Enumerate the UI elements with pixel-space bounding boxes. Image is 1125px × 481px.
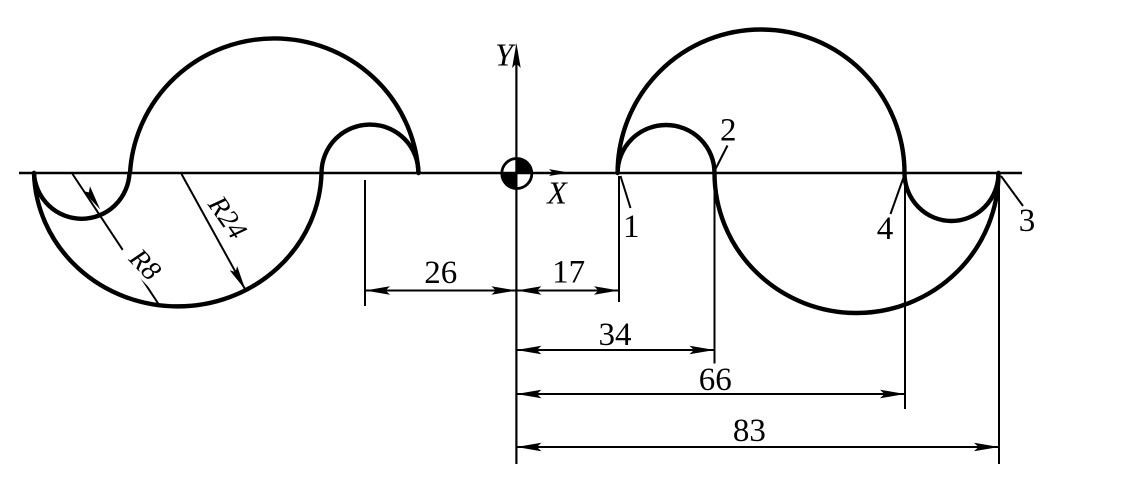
R8 label (115, 235, 173, 294)
right profile: R8 arc bowl below axis (point 4 to 3) (905, 173, 999, 221)
origin marker quadrant upper-right (517, 159, 532, 174)
right profile: R24 arc dome above axis (point 1 to 4) (618, 29, 905, 173)
svg-text:83: 83 (733, 413, 766, 449)
Y axis (515, 58, 517, 464)
leader for point 4 (891, 178, 904, 215)
svg-text:17: 17 (552, 255, 585, 291)
dimension 66 line (516, 393, 905, 395)
svg-text:26: 26 (424, 255, 457, 291)
right profile: R24 arc bowl below axis (point 2 to 3) (715, 173, 999, 313)
leader for point 2 (716, 146, 728, 170)
left profile: R24 arc dome above axis (130, 38, 419, 173)
dimension 83 line (516, 446, 999, 448)
leader for point 3 (1001, 176, 1023, 206)
extension line at point 2 (714, 176, 716, 364)
svg-text:3: 3 (1019, 203, 1036, 239)
svg-text:4: 4 (877, 211, 894, 247)
extension line at point 4 (904, 176, 906, 409)
extension line at point 1 (618, 176, 620, 302)
X axis arrow (549, 169, 569, 176)
leader for point 1 (621, 176, 631, 208)
svg-text:2: 2 (720, 113, 737, 149)
origin marker circle (502, 159, 532, 189)
R8 leader arrowhead (83, 186, 104, 212)
R24 leader arrowhead (230, 266, 250, 292)
svg-text:66: 66 (699, 362, 732, 398)
R8 leader line (73, 174, 161, 307)
dimension 26 line (365, 290, 516, 292)
extension line at x=-26 (dim 26) (364, 180, 366, 306)
X axis (19, 172, 1022, 174)
Y axis arrow (512, 43, 521, 68)
left profile: R8 arc bowl below axis (34, 173, 130, 219)
svg-text:X: X (545, 175, 568, 211)
right profile: R8 arc dome above axis (point 1 to 2) (618, 125, 715, 173)
svg-text:1: 1 (623, 209, 640, 245)
dimension 17 line (516, 290, 619, 292)
dimension 34 line (516, 349, 714, 351)
origin marker quadrant lower-left (502, 174, 517, 189)
svg-text:34: 34 (599, 317, 632, 353)
R24 label (201, 190, 253, 246)
left profile: R24 arc bowl below axis (34, 173, 322, 306)
extension line at point 3 (998, 176, 1000, 464)
left profile: R8 arc dome above axis (322, 125, 419, 173)
R24 leader line (182, 174, 246, 290)
